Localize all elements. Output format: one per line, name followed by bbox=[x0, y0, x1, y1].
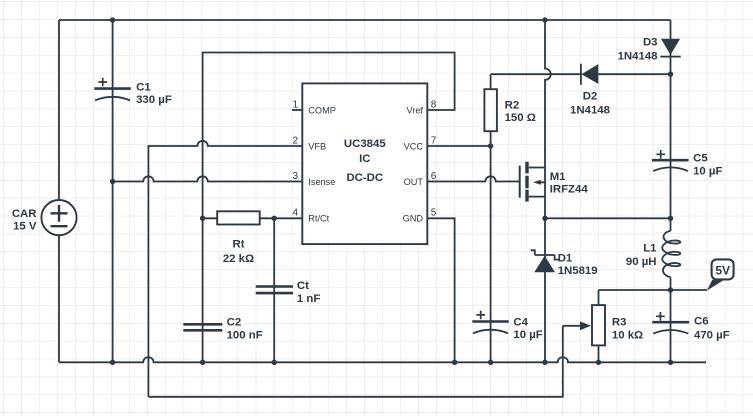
wire GND pin5 bbox=[427, 218, 454, 362]
inductor L1 bbox=[626, 231, 680, 277]
pin 2 number bbox=[292, 136, 298, 147]
resistor Rt bbox=[203, 211, 275, 265]
label 5V output bbox=[707, 259, 734, 290]
svg-text:Isense: Isense bbox=[308, 177, 335, 187]
svg-text:150 Ω: 150 Ω bbox=[505, 112, 536, 124]
svg-text:DC-DC: DC-DC bbox=[346, 172, 383, 184]
pin 7 number bbox=[431, 136, 437, 147]
potentiometer R3 bbox=[563, 290, 643, 362]
wire pin4 bbox=[274, 217, 302, 219]
svg-text:8: 8 bbox=[431, 100, 437, 111]
svg-text:7: 7 bbox=[431, 136, 437, 147]
wire left rail bbox=[58, 20, 60, 362]
wire feedback lower bbox=[148, 326, 562, 397]
node C2 bottom junction bbox=[200, 360, 205, 365]
svg-text:C4: C4 bbox=[513, 317, 528, 329]
svg-text:2: 2 bbox=[292, 136, 298, 147]
svg-text:470 µF: 470 µF bbox=[694, 329, 730, 341]
node L1 bottom junction bbox=[668, 287, 673, 292]
svg-text:Ct: Ct bbox=[297, 280, 309, 292]
svg-text:C5: C5 bbox=[693, 153, 708, 165]
svg-text:IC: IC bbox=[359, 153, 370, 165]
node R3 bottom junction bbox=[596, 360, 601, 365]
capacitor C1 bbox=[94, 78, 172, 107]
svg-text:5: 5 bbox=[431, 208, 437, 219]
svg-text:Rt: Rt bbox=[232, 238, 244, 250]
wire VCC pin7 bbox=[427, 145, 490, 147]
svg-text:C2: C2 bbox=[227, 316, 242, 328]
pin 6 number bbox=[431, 171, 437, 182]
node junction top-left bbox=[110, 17, 115, 22]
wire Vref loop pin8 bbox=[203, 53, 455, 363]
svg-text:6: 6 bbox=[431, 171, 437, 182]
svg-text:R2: R2 bbox=[505, 99, 520, 111]
wire output to R3 bbox=[599, 289, 707, 291]
svg-text:IRFZ44: IRFZ44 bbox=[550, 183, 589, 195]
capacitor Ct bbox=[256, 280, 321, 305]
node switch junction right bbox=[668, 216, 673, 221]
pin 4 number bbox=[292, 208, 298, 219]
pin 5 number bbox=[431, 208, 437, 219]
wire R2 top to D2 bbox=[491, 73, 581, 75]
node Rt right junction bbox=[272, 216, 277, 221]
resistor R2 bbox=[484, 74, 536, 146]
node junction top-mid bbox=[542, 17, 547, 22]
svg-text:M1: M1 bbox=[550, 171, 566, 183]
svg-text:15 V: 15 V bbox=[13, 221, 37, 233]
transistor M1 IRFZ44 bbox=[520, 162, 589, 202]
node C4 bottom junction bbox=[488, 360, 493, 365]
svg-text:100 nF: 100 nF bbox=[227, 329, 263, 341]
svg-text:COMP: COMP bbox=[308, 105, 336, 115]
pin 3 number bbox=[292, 171, 298, 182]
node Ct bottom junction bbox=[272, 360, 277, 365]
wire bottom rail bbox=[59, 357, 706, 362]
capacitor C2 bbox=[183, 316, 262, 341]
node Rt left junction bbox=[200, 216, 205, 221]
IC U1 UC3845 bbox=[302, 83, 427, 244]
svg-text:UC3845: UC3845 bbox=[344, 138, 386, 150]
diode D2 1N4148 bbox=[570, 64, 670, 117]
svg-text:D1: D1 bbox=[558, 253, 573, 265]
pin 8 number bbox=[431, 100, 437, 111]
pin 1 stub bbox=[292, 100, 302, 111]
svg-text:VCC: VCC bbox=[404, 141, 424, 151]
wire drain net vertical bbox=[545, 20, 551, 362]
svg-text:L1: L1 bbox=[643, 242, 657, 254]
svg-text:Rt/Ct: Rt/Ct bbox=[308, 214, 329, 224]
node switch junction left bbox=[542, 216, 547, 221]
svg-text:90 µH: 90 µH bbox=[626, 256, 657, 268]
voltage source CAR bbox=[12, 200, 77, 235]
node VCC junction bbox=[488, 143, 493, 148]
svg-text:1N4148: 1N4148 bbox=[618, 50, 658, 62]
capacitor C4 bbox=[472, 311, 542, 341]
node bottom junction C1 bbox=[110, 360, 115, 365]
wire VFB pin2 bbox=[148, 141, 302, 397]
svg-text:C6: C6 bbox=[694, 316, 709, 328]
svg-text:R3: R3 bbox=[612, 317, 627, 329]
wire C1 net vertical bbox=[112, 20, 114, 362]
node D2-D3 junction bbox=[668, 72, 673, 77]
wire C4 branch bbox=[490, 146, 492, 362]
svg-text:D3: D3 bbox=[643, 36, 658, 48]
wire OUT pin6 to gate bbox=[427, 176, 519, 181]
node Isense junction bbox=[110, 179, 115, 184]
node C6 bottom junction bbox=[668, 360, 673, 365]
svg-text:Vref: Vref bbox=[406, 105, 423, 115]
svg-text:1N5819: 1N5819 bbox=[558, 265, 598, 277]
node D1 bottom junction bbox=[542, 360, 547, 365]
svg-text:1N4148: 1N4148 bbox=[570, 104, 610, 116]
wire Ct branch bbox=[273, 218, 275, 362]
svg-text:3: 3 bbox=[292, 171, 298, 182]
svg-text:1 nF: 1 nF bbox=[297, 293, 320, 305]
wire right column bbox=[670, 20, 672, 362]
svg-text:C1: C1 bbox=[136, 81, 151, 93]
svg-text:330 µF: 330 µF bbox=[136, 94, 172, 106]
svg-text:1: 1 bbox=[292, 100, 298, 111]
capacitor C5 bbox=[652, 150, 723, 178]
svg-text:OUT: OUT bbox=[404, 177, 424, 187]
svg-text:D2: D2 bbox=[583, 91, 598, 103]
svg-text:GND: GND bbox=[403, 214, 424, 224]
svg-text:10 µF: 10 µF bbox=[693, 166, 722, 178]
capacitor C6 bbox=[652, 312, 730, 341]
diode D1 1N5819 bbox=[531, 250, 598, 277]
svg-text:4: 4 bbox=[292, 208, 298, 219]
svg-text:VFB: VFB bbox=[308, 141, 326, 151]
node GND bottom junction bbox=[452, 360, 457, 365]
svg-text:22 kΩ: 22 kΩ bbox=[223, 253, 254, 265]
svg-text:CAR: CAR bbox=[12, 208, 37, 220]
wire Isense pin3 bbox=[113, 176, 303, 181]
wire switch node bbox=[545, 217, 671, 219]
diode D3 1N4148 bbox=[618, 36, 681, 62]
wire top rail bbox=[59, 19, 671, 21]
svg-text:5V: 5V bbox=[715, 263, 730, 277]
svg-text:10 µF: 10 µF bbox=[513, 329, 542, 341]
svg-text:10 kΩ: 10 kΩ bbox=[612, 329, 643, 341]
